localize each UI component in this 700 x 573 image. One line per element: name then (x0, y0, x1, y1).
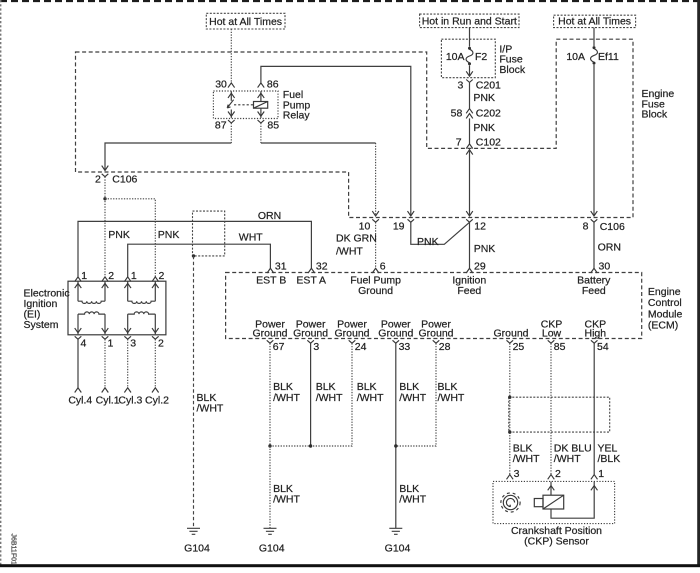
EI coil secondary right (128, 312, 156, 314)
wire 85 over to C106 pin 10 (261, 142, 376, 144)
power box: Hot at All Times (left) (206, 13, 285, 29)
EI pin 4 bottom (75, 336, 87, 349)
svg-text:3: 3 (457, 80, 463, 92)
svg-text:Feed: Feed (582, 285, 606, 297)
CKP reluctor gear (501, 493, 520, 512)
svg-text:C106: C106 (112, 174, 137, 186)
svg-text:C106: C106 (600, 221, 625, 233)
relay pin 87 (215, 119, 235, 131)
EI pin 1b top (124, 270, 137, 282)
wire PNK jog pin 19 to pin 12 (411, 222, 470, 248)
wire relay 86 up and over to C106 pin 19 (261, 66, 411, 215)
svg-text:3: 3 (130, 338, 136, 350)
svg-text:PNK: PNK (417, 236, 439, 248)
svg-text:3: 3 (514, 468, 520, 480)
svg-text:Cyl.3: Cyl.3 (118, 394, 142, 406)
svg-text:/WHT: /WHT (513, 453, 540, 465)
wire BLK/WHT pin 33 (396, 343, 427, 528)
ECM pin 28 Power Ground (418, 319, 453, 353)
svg-text:/WHT: /WHT (197, 403, 224, 415)
relay coil (254, 91, 268, 118)
label Engine Control Module (ECM) (648, 286, 683, 332)
svg-text:(CKP) Sensor: (CKP) Sensor (524, 536, 589, 548)
svg-text:/WHT: /WHT (316, 392, 343, 404)
svg-text:32: 32 (316, 260, 328, 272)
svg-text:Low: Low (542, 327, 562, 339)
svg-text:8: 8 (583, 220, 589, 232)
label Fuel Pump Relay (283, 89, 311, 122)
svg-text:F2: F2 (475, 51, 487, 63)
EI secondary stubs (75, 314, 159, 334)
wire to Cyl.1 (104, 339, 106, 388)
EI coil primary left (78, 301, 105, 303)
wire C102 down to C106 pin 12 (469, 150, 471, 216)
svg-text:Ground: Ground (334, 327, 369, 339)
crankshaft position sensor box (493, 481, 615, 523)
svg-text:33: 33 (399, 341, 411, 353)
junction node splice (192, 254, 195, 257)
connector C106 pin 19 (393, 211, 414, 232)
svg-text:Block: Block (642, 109, 668, 121)
wire YEL/BLK pin 54 to CKP 1 (594, 343, 620, 474)
wire relay 87 down (230, 123, 232, 143)
svg-text:Ground: Ground (293, 327, 328, 339)
svg-text:10A: 10A (566, 51, 585, 63)
EI coil secondary left (78, 312, 105, 314)
svg-text:30: 30 (215, 79, 227, 91)
svg-text:Ground: Ground (418, 327, 453, 339)
connector C102 pin 7 (456, 137, 501, 155)
svg-text:/WHT: /WHT (399, 392, 426, 404)
svg-text:7: 7 (456, 137, 462, 149)
svg-text:/WHT: /WHT (273, 392, 300, 404)
wire ORN C106-8 to ECM 30 (594, 222, 621, 268)
terminal Cyl.2 (145, 388, 169, 407)
svg-text:/BLK: /BLK (598, 453, 621, 465)
ECM pin 30 Battery Feed (577, 260, 611, 296)
svg-text:Engine: Engine (648, 286, 681, 298)
svg-text:Ground: Ground (378, 327, 413, 339)
wire hot2 to fuse F2 (469, 28, 471, 47)
svg-text:PNK: PNK (108, 229, 130, 241)
EI pin 3 bottom (124, 336, 136, 349)
junction node ground group right (394, 444, 397, 447)
ECM box (226, 273, 642, 339)
relay link dashed (234, 104, 254, 106)
svg-text:30: 30 (599, 260, 611, 272)
terminal Cyl.4 (68, 388, 92, 407)
ECM pin 54 CKP High (584, 319, 608, 353)
wire BLK/WHT pin 67 (270, 343, 301, 446)
fuel pump relay box (213, 91, 278, 119)
svg-text:High: High (584, 327, 606, 339)
wire WHT EI pin1b to ECM EST B (128, 232, 271, 277)
ECM pin 33 Power Ground (378, 319, 413, 353)
wire BLK/WHT pin 25 to CKP 3 (510, 343, 540, 474)
splice box dashed (193, 211, 225, 256)
I/P fuse block box (441, 39, 495, 77)
ground G104 left (184, 528, 210, 554)
wire DK GRN/WHT C106-10 to ECM 6 (336, 222, 377, 268)
connector C106 pin 12 (466, 211, 486, 232)
svg-text:Cyl.2: Cyl.2 (145, 394, 169, 406)
svg-text:ORN: ORN (258, 210, 281, 222)
svg-text:PNK: PNK (158, 229, 180, 241)
svg-text:Hot in Run and Start: Hot in Run and Start (422, 16, 517, 28)
svg-text:19: 19 (393, 220, 405, 232)
EI primary stubs (75, 281, 159, 301)
svg-text:3: 3 (313, 341, 319, 353)
wire to Cyl.3 (127, 339, 129, 388)
svg-text:86: 86 (267, 79, 279, 91)
svg-text:12: 12 (474, 220, 486, 232)
wire DK BLU/WHT pin 85 to CKP 2 (551, 343, 592, 474)
svg-text:Hot at All Times: Hot at All Times (209, 16, 282, 28)
connector C106 pin 8 (583, 211, 625, 233)
page border right (697, 0, 700, 567)
svg-text:67: 67 (273, 341, 285, 353)
svg-text:6: 6 (380, 260, 386, 272)
svg-text:G104: G104 (385, 543, 411, 555)
svg-text:Cyl.4: Cyl.4 (68, 394, 92, 406)
svg-text:Ground: Ground (358, 285, 393, 297)
EI pin 2 top (102, 270, 115, 282)
svg-text:ORN: ORN (598, 242, 621, 254)
svg-text:DK GRN: DK GRN (336, 233, 377, 245)
wire PNK branch to EI pin 2b (105, 199, 179, 277)
ECM pin 25 Ground (493, 327, 528, 353)
wire hot3 to fuse Ef11 (593, 28, 595, 46)
svg-text:EST B: EST B (256, 274, 286, 286)
EI pin 2b top (152, 270, 165, 282)
wire PNK C201 to C202 (470, 83, 495, 109)
wire hot1 to relay pin 30 (230, 29, 232, 83)
svg-text:J6B11F01: J6B11F01 (10, 534, 17, 565)
wire BLK/WHT pin 28 (396, 343, 465, 446)
svg-text:10: 10 (359, 220, 371, 232)
svg-text:(ECM): (ECM) (648, 320, 678, 332)
ECM pin 32 EST A (296, 260, 327, 286)
relay pin 85 (258, 119, 280, 131)
ground G104 center-left (259, 528, 285, 554)
CKP pin 2 (548, 468, 561, 480)
svg-text:/WHT: /WHT (399, 493, 426, 505)
svg-text:1: 1 (131, 270, 137, 282)
ECM pin 24 Power Ground (334, 319, 369, 353)
wire ORN EI pin1 to ECM EST A (78, 210, 311, 277)
svg-text:2: 2 (95, 174, 101, 186)
fuse Ef11 (566, 46, 619, 65)
svg-text:4: 4 (81, 338, 87, 350)
engine fuse block dashed outline (76, 39, 634, 217)
svg-text:24: 24 (355, 341, 367, 353)
wire BLK/WHT dashed to G104 left (194, 256, 224, 528)
svg-text:Ground: Ground (493, 327, 528, 339)
svg-text:10A: 10A (446, 51, 465, 63)
wire PNK from C106-2 to EI pin 2 (105, 177, 130, 277)
ground G104 center (385, 528, 411, 554)
relay pin 30 (215, 79, 234, 91)
svg-text:/WHT: /WHT (438, 392, 465, 404)
EI coil primary right (128, 301, 156, 303)
wire BLK/WHT to G104 center-left (270, 446, 301, 528)
svg-text:1: 1 (108, 338, 114, 350)
wire to Cyl.4 (77, 339, 79, 388)
svg-text:31: 31 (275, 260, 287, 272)
svg-text:Feed: Feed (457, 285, 481, 297)
wire to C106 pin 2 (105, 143, 231, 170)
svg-text:1: 1 (81, 270, 87, 282)
svg-text:1: 1 (598, 468, 604, 480)
ECM pin 31 EST B (256, 260, 287, 286)
wire relay 85 down (260, 123, 262, 143)
svg-text:Module: Module (648, 308, 683, 320)
svg-text:C102: C102 (476, 137, 501, 149)
connector C201 pin 3 (457, 71, 501, 91)
ECM pin 6 Fuel Pump Ground (350, 260, 401, 296)
wire BLK/WHT pin 24 (270, 343, 384, 446)
svg-text:/WHT: /WHT (554, 453, 581, 465)
CKP sensor element (534, 482, 563, 509)
label I/P Fuse Block (499, 43, 525, 76)
svg-text:C201: C201 (476, 80, 501, 92)
svg-text:25: 25 (513, 341, 525, 353)
svg-text:Ground: Ground (252, 327, 287, 339)
page border left (0, 0, 2, 567)
EI pin 1 bottom (102, 336, 114, 349)
svg-text:WHT: WHT (239, 232, 263, 244)
wire PNK C106-12 to ECM 29 (470, 222, 496, 268)
svg-text:28: 28 (439, 341, 451, 353)
CKP pin1 internal wire (551, 482, 598, 519)
svg-text:PNK: PNK (473, 122, 495, 134)
svg-text:Hot at All Times: Hot at All Times (558, 16, 631, 28)
svg-text:29: 29 (474, 260, 486, 272)
svg-text:EST A: EST A (296, 274, 326, 286)
label Crankshaft Position (CKP) Sensor (511, 525, 602, 548)
CKP pin 3 (507, 468, 520, 480)
svg-text:Block: Block (499, 64, 525, 76)
ECM pin 3 Power Ground (293, 319, 328, 353)
svg-text:87: 87 (215, 119, 227, 131)
splice box dashed CKP (509, 397, 610, 432)
power box: Hot in Run and Start (420, 14, 519, 28)
junction node (103, 197, 106, 200)
relay pin 86 (258, 79, 279, 91)
electronic ignition system box (68, 281, 166, 335)
svg-text:PNK: PNK (473, 92, 495, 104)
svg-text:2: 2 (108, 270, 114, 282)
connector C106 pin 2 (95, 166, 138, 186)
ECM pin 67 Power Ground (252, 319, 287, 353)
svg-text:58: 58 (451, 108, 463, 120)
label Electronic Ignition (EI) System (24, 288, 70, 331)
svg-text:85: 85 (554, 341, 566, 353)
label Engine Fuse Block (642, 88, 675, 121)
ECM pin 85 CKP Low (541, 319, 566, 353)
wire to Cyl.2 (154, 339, 156, 388)
svg-text:G104: G104 (259, 543, 285, 555)
svg-text:/WHT: /WHT (336, 246, 363, 258)
svg-text:2: 2 (555, 468, 561, 480)
relay switch (227, 91, 234, 118)
junction node CKP splice bottom (508, 430, 511, 433)
connector C106 pin 10 (359, 211, 379, 232)
wire fuse F2 to connector C201 (469, 65, 471, 76)
svg-text:Relay: Relay (283, 110, 311, 122)
svg-text:Ef11: Ef11 (598, 51, 619, 63)
ECM pin 29 Ignition Feed (452, 260, 486, 296)
svg-text:Cyl.1: Cyl.1 (96, 394, 120, 406)
svg-text:C202: C202 (476, 108, 501, 120)
svg-text:/WHT: /WHT (357, 392, 384, 404)
connector C202 pin 58 (451, 108, 501, 120)
EI pin 2 bottom (152, 336, 164, 349)
wire Ef11 down to C106 pin 8 (593, 65, 595, 216)
page border bottom (0, 564, 700, 567)
svg-text:2: 2 (159, 270, 165, 282)
svg-text:85: 85 (267, 119, 279, 131)
fuse F2 (446, 47, 488, 65)
svg-text:2: 2 (158, 338, 164, 350)
junction nodes ground group left (268, 444, 271, 447)
terminal Cyl.3 (118, 388, 142, 407)
power box: Hot at All Times (right) (554, 15, 636, 27)
page border top (0, 0, 700, 2)
terminal Cyl.1 (96, 388, 120, 407)
svg-text:/WHT: /WHT (273, 493, 300, 505)
EI pin 1 top (75, 270, 88, 282)
svg-text:System: System (24, 319, 59, 331)
svg-text:G104: G104 (184, 543, 210, 555)
wire PNK C202 to C102 (470, 118, 495, 143)
wire BLK/WHT pin 3 (311, 343, 344, 446)
junction node CKP splice top (508, 396, 511, 399)
CKP pin 1 (591, 468, 604, 480)
svg-text:PNK: PNK (474, 243, 496, 255)
svg-text:54: 54 (597, 341, 609, 353)
